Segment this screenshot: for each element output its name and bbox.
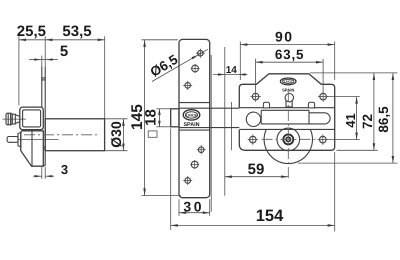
plate extension up lines	[44, 36, 46, 67]
dim 5 line and arrows	[29, 59, 41, 61]
dim 145 extension top	[142, 39, 179, 41]
logo L2 oval	[280, 78, 296, 85]
svg-text:LINCE: LINCE	[186, 113, 197, 117]
screw S1 cone	[15, 115, 19, 117]
body hole TR	[320, 93, 327, 100]
svg-text:30: 30	[183, 198, 204, 214]
svg-text:Ø30: Ø30	[108, 121, 124, 148]
dim O6,5 leader line	[152, 49, 208, 81]
hub center ring	[286, 137, 290, 141]
hub vertical centerline	[287, 91, 289, 180]
dim 3 line and arrows	[33, 175, 42, 177]
dim O30 line	[122, 119, 124, 151]
bolt guide band bottom line	[179, 129, 210, 131]
logo L1 oval	[183, 110, 200, 120]
dim 72 line	[373, 73, 375, 150]
cylinder hidden screw hole line	[18, 138, 59, 140]
dim 63,5 line	[256, 61, 324, 63]
bracket box B1 outer	[20, 107, 44, 130]
dim 53,5 extension right	[104, 36, 106, 118]
dim 145 line	[144, 40, 146, 196]
door edge line 2	[230, 102, 232, 150]
screw S1 neck	[12, 114, 15, 124]
dim 18 extension lines	[156, 108, 170, 110]
keyhole circle	[286, 100, 292, 107]
dim 25,5 line	[19, 39, 46, 41]
dim 30 extension lines	[178, 199, 180, 216]
body band bottom line	[239, 128, 334, 130]
frame line	[210, 55, 212, 212]
svg-text:63,5: 63,5	[275, 47, 304, 62]
svg-text:5: 5	[60, 43, 68, 60]
screw S2 rod	[7, 137, 18, 143]
svg-text:25,5: 25,5	[17, 23, 46, 40]
dim 154 right extension	[334, 152, 336, 232]
hub mid circle	[277, 128, 300, 151]
cylinder barrel rect	[45, 119, 104, 151]
plate hole H2	[192, 65, 199, 72]
keeper plate outline	[179, 39, 210, 197]
carriage bottom line	[261, 109, 309, 111]
svg-text:59: 59	[248, 161, 265, 178]
carriage left edge	[260, 110, 262, 123]
screw S2 washer	[18, 133, 21, 147]
plate hole H4	[198, 147, 204, 153]
follower circle	[246, 112, 260, 126]
dim 72 bottom extension	[337, 149, 378, 151]
plate hole H1	[198, 50, 204, 56]
dim 14 line	[213, 74, 239, 76]
dim 63,5 extension lines	[255, 59, 257, 92]
dim 90 extension lines	[239, 42, 241, 81]
hub thick ring	[283, 134, 293, 144]
dim 86,5 line	[392, 73, 394, 163]
dim 53,5 line	[45, 39, 104, 41]
cylinder body inner line	[31, 131, 33, 166]
dim 145 extension bottom	[142, 195, 182, 197]
dim 154 left extension	[170, 129, 172, 230]
dim 90 line	[240, 44, 334, 46]
plate bottom tick	[43, 165, 45, 167]
cylinder body trapezoid	[21, 131, 44, 166]
dim 18 line	[158, 109, 160, 127]
cylinder centerline	[24, 134, 99, 136]
dim 30 line	[179, 212, 210, 214]
dim 154 line	[171, 224, 335, 226]
plate edge left line	[41, 67, 43, 107]
svg-text:14: 14	[226, 65, 238, 76]
plate edge right line	[44, 67, 46, 166]
svg-text:41: 41	[343, 113, 358, 127]
dim 25,5 extension line left	[18, 36, 20, 105]
slot right cap	[325, 113, 330, 124]
dim 18 square symbol	[148, 131, 157, 137]
screw S1 head	[6, 113, 12, 125]
bolt guide tab	[263, 102, 269, 108]
plate hole H3	[185, 83, 191, 89]
svg-text:145: 145	[129, 104, 146, 130]
plate notch ticks lower	[43, 146, 45, 148]
lock body outline	[239, 74, 334, 151]
dim 41 extension lines	[327, 96, 360, 98]
plate hole H6	[185, 178, 191, 184]
slot upper line	[309, 112, 325, 114]
body band top line	[239, 107, 334, 109]
body hole BR	[320, 136, 327, 143]
svg-text:154: 154	[256, 207, 284, 225]
door edge line	[224, 47, 226, 196]
svg-text:LINCE: LINCE	[284, 80, 293, 84]
slot left edge	[308, 110, 310, 124]
svg-text:53,5: 53,5	[62, 23, 91, 40]
svg-text:86,5: 86,5	[376, 106, 391, 133]
bolt lines across door gap	[179, 107, 239, 109]
screw S1 axis centerline	[3, 118, 27, 120]
body hole TL	[252, 93, 259, 100]
dim 86,5 bottom extension	[298, 162, 398, 164]
dim 59 line	[225, 176, 288, 178]
hub horizontal centerline	[262, 138, 316, 140]
svg-text:3: 3	[61, 162, 68, 177]
dim 41 line	[356, 97, 358, 140]
svg-text:72: 72	[360, 114, 375, 129]
svg-text:90: 90	[275, 28, 294, 44]
bolt guide band top line	[179, 102, 210, 104]
bracket box B1 inner	[23, 110, 41, 127]
dim 3 extension lines	[41, 167, 43, 179]
dim O30 extension lines	[105, 118, 128, 120]
plate notch ticks upper	[41, 77, 46, 79]
hub outer circle	[264, 129, 312, 163]
body hole BL	[250, 136, 257, 143]
plate hole H5	[191, 161, 198, 168]
bolt tip	[171, 109, 179, 127]
dim 72+86,5 top extension	[310, 72, 398, 74]
